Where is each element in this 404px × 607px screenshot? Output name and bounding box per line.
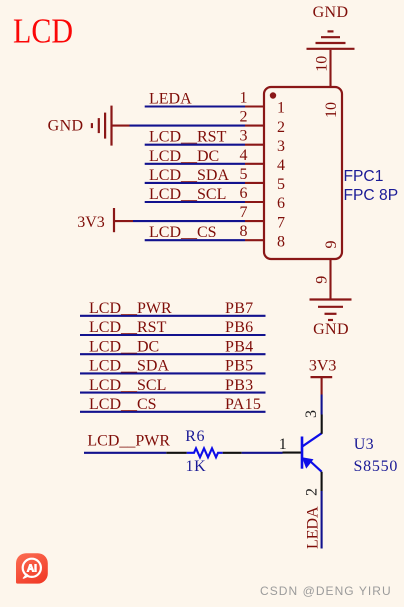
svg-text:GND: GND: [48, 118, 84, 135]
svg-text:4: 4: [240, 147, 248, 164]
svg-text:2: 2: [240, 109, 248, 126]
wire LCD_PWR net stub: [80, 315, 266, 317]
pin 1 of R6: [166, 452, 187, 454]
ground GND (bottom, at pin 9): [310, 300, 352, 339]
pin 8 stub: [245, 239, 264, 241]
svg-text:FPC1: FPC1: [344, 168, 384, 185]
svg-text:1: 1: [277, 100, 285, 117]
svg-text:LEDA: LEDA: [149, 91, 192, 108]
svg-text:3: 3: [303, 410, 320, 418]
lead from 3V3 bar: [321, 378, 323, 395]
svg-text:LCD__PWR: LCD__PWR: [87, 433, 170, 450]
svg-text:U3: U3: [354, 436, 374, 453]
pin 5 stub: [245, 182, 264, 184]
wire LEDA down from Q pin2: [321, 491, 323, 549]
svg-text:LCD__DC: LCD__DC: [89, 338, 159, 355]
wire 3V3 to pin7: [133, 220, 245, 222]
pin 6 stub: [245, 201, 264, 203]
svg-text:6: 6: [240, 185, 248, 202]
svg-text:9: 9: [314, 276, 331, 284]
svg-text:10: 10: [323, 102, 340, 118]
svg-text:LCD__SDA: LCD__SDA: [89, 358, 169, 375]
wire LCD_PWR to R6: [84, 452, 166, 454]
svg-text:AI: AI: [27, 563, 37, 574]
svg-text:LCD__SCL: LCD__SCL: [89, 377, 166, 394]
svg-text:LCD__RST: LCD__RST: [149, 129, 227, 146]
svg-text:4: 4: [277, 157, 285, 174]
lead from left 3V3: [115, 220, 133, 222]
pin 1 base wire (black): [283, 452, 303, 454]
base bar: [301, 437, 304, 469]
svg-text:LCD__CS: LCD__CS: [89, 396, 157, 413]
resistor R6: [166, 428, 241, 475]
svg-text:8: 8: [240, 223, 248, 240]
svg-text:R6: R6: [185, 428, 205, 445]
wire LCD_RST net stub: [80, 334, 266, 336]
ground GND (top, at pin 10): [307, 4, 355, 49]
svg-text:3V3: 3V3: [77, 214, 105, 231]
svg-text:LCD__SCL: LCD__SCL: [149, 186, 226, 203]
pin 1 marker dot: [270, 92, 276, 98]
svg-text:PB7: PB7: [225, 300, 253, 317]
wire LCD_RST (pin3): [145, 144, 245, 146]
svg-text:LEDA: LEDA: [304, 506, 321, 549]
pin 3 stub: [245, 144, 264, 146]
wire LCD_SDA net stub: [80, 372, 266, 374]
pin 1 stub: [245, 105, 264, 107]
svg-text:PB3: PB3: [225, 377, 253, 394]
wire LCD_DC net stub: [80, 353, 266, 355]
svg-text:8: 8: [277, 233, 285, 250]
svg-text:5: 5: [240, 166, 248, 183]
emitter arrow: [302, 457, 314, 468]
wire LCD_SDA (pin5): [145, 182, 245, 184]
svg-text:GND: GND: [313, 321, 349, 338]
svg-text:1: 1: [279, 436, 287, 453]
svg-text:LCD__SDA: LCD__SDA: [149, 167, 229, 184]
pin 2 stub: [245, 125, 264, 127]
pin 3 wire (black): [321, 415, 323, 434]
svg-text:3: 3: [240, 128, 248, 145]
svg-text:PA15: PA15: [225, 396, 261, 413]
svg-text:GND: GND: [313, 4, 349, 21]
CSDN AI logo: [16, 553, 48, 583]
connector U FPC1 box: [264, 87, 342, 259]
emitter line: [311, 462, 322, 472]
svg-text:3: 3: [277, 138, 285, 155]
svg-text:PB5: PB5: [225, 358, 253, 375]
wire LCD_SCL (pin6): [145, 201, 245, 203]
wire LEDA (pin1): [145, 105, 245, 107]
wire 3V3 to Q emitter pin 3: [321, 395, 323, 415]
svg-text:PB4: PB4: [225, 338, 253, 355]
svg-text:7: 7: [277, 214, 285, 231]
svg-text:FPC 8P: FPC 8P: [344, 187, 399, 204]
svg-text:S8550: S8550: [354, 458, 399, 475]
svg-text:LCD: LCD: [13, 12, 73, 51]
svg-text:3V3: 3V3: [309, 358, 337, 375]
svg-text:5: 5: [277, 176, 285, 193]
pin names inside 1-8: [277, 100, 285, 251]
lead from left GND: [113, 125, 130, 127]
wire pin10 to top ground: [329, 50, 331, 88]
pin 7 stub: [245, 220, 264, 222]
wire LCD_CS net stub: [80, 411, 266, 413]
svg-text:1K: 1K: [186, 458, 207, 475]
wire R6 to Q1 base: [242, 452, 283, 454]
svg-text:10: 10: [314, 56, 331, 72]
svg-text:2: 2: [303, 488, 320, 496]
pin 2 of R6: [223, 452, 242, 454]
svg-text:1: 1: [240, 90, 248, 107]
svg-text:LCD__CS: LCD__CS: [149, 224, 217, 241]
svg-text:6: 6: [277, 195, 285, 212]
svg-text:LCD__DC: LCD__DC: [149, 148, 219, 165]
svg-text:PB6: PB6: [225, 319, 253, 336]
wire LCD_SCL net stub: [80, 392, 266, 394]
collector line: [303, 433, 322, 446]
pin 9 stub (bottom): [329, 259, 331, 300]
pin 4 stub: [245, 163, 264, 165]
wire LCD_DC (pin4): [145, 163, 245, 165]
svg-text:LCD__PWR: LCD__PWR: [89, 300, 172, 317]
body zigzag: [187, 448, 223, 457]
svg-text:7: 7: [240, 204, 248, 221]
pin 2 wire (black): [321, 472, 323, 491]
power port GND (left, pin2): [48, 106, 112, 146]
svg-text:2: 2: [277, 119, 285, 136]
svg-text:9: 9: [323, 241, 340, 249]
svg-text:LCD__RST: LCD__RST: [89, 319, 167, 336]
wire LCD_CS (pin8): [145, 239, 245, 241]
transistor U3 S8550: [279, 410, 398, 496]
wire GND to pin2: [130, 125, 246, 127]
svg-text:CSDN @DENG YIRU: CSDN @DENG YIRU: [260, 584, 392, 598]
pin numbers outside 1-8: [240, 90, 248, 241]
